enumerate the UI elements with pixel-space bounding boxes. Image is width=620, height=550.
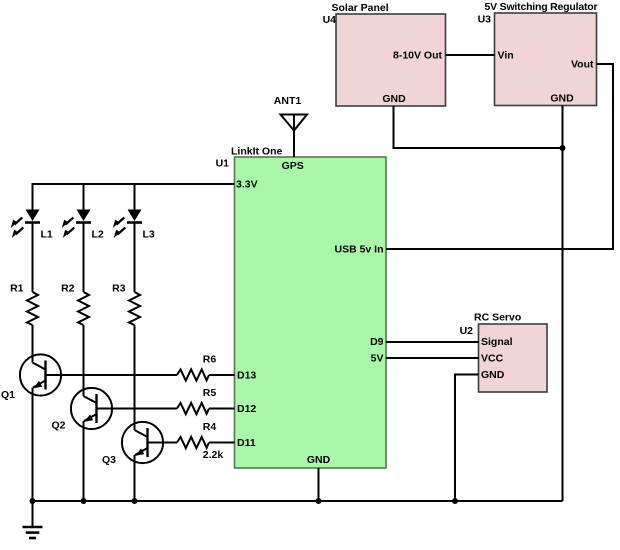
- regulator U3: [478, 1, 598, 106]
- junction L1 chain / rail: [30, 498, 36, 504]
- svg-text:5V: 5V: [371, 353, 384, 365]
- ground: [23, 501, 43, 538]
- svg-text:RC Servo: RC Servo: [474, 312, 521, 324]
- svg-text:Q1: Q1: [1, 389, 15, 401]
- wire Q3 base to R4: [148, 442, 178, 444]
- junction L3 chain / rail: [132, 498, 138, 504]
- wire Q2 emitter down: [83, 421, 85, 501]
- resistor R2: [61, 283, 89, 326]
- wire R3 to Q3 collector: [134, 325, 136, 430]
- svg-text:L3: L3: [143, 229, 155, 241]
- svg-text:R2: R2: [61, 283, 75, 295]
- ground rail: [32, 500, 563, 502]
- svg-text:GPS: GPS: [282, 160, 304, 172]
- svg-text:D13: D13: [237, 370, 256, 382]
- svg-text:U4: U4: [323, 14, 337, 26]
- svg-text:L1: L1: [41, 229, 53, 241]
- transistor Q2: [51, 388, 112, 432]
- junction L2 chain / rail: [81, 498, 87, 504]
- resistor R1: [10, 283, 38, 326]
- wire U2 GND down: [455, 375, 479, 502]
- solar panel U4: [323, 2, 446, 106]
- svg-text:R5: R5: [203, 387, 217, 399]
- LinkIt One U1: [216, 146, 386, 469]
- svg-text:Solar Panel: Solar Panel: [332, 2, 389, 14]
- svg-text:U2: U2: [460, 325, 474, 337]
- svg-text:VCC: VCC: [481, 353, 504, 365]
- wire Q1 base to R6: [46, 374, 178, 376]
- svg-text:GND: GND: [382, 93, 406, 105]
- svg-text:D12: D12: [237, 403, 256, 415]
- svg-text:GND: GND: [550, 93, 574, 105]
- resistor R5: [177, 387, 216, 414]
- svg-text:R3: R3: [112, 283, 126, 295]
- wire U3 Vout to USB 5v In: [386, 64, 613, 249]
- svg-text:Signal: Signal: [481, 336, 513, 348]
- svg-text:R4: R4: [203, 421, 217, 433]
- LED L3: [113, 210, 155, 241]
- junction U1 GND / rail: [316, 498, 322, 504]
- svg-text:2.2k: 2.2k: [203, 449, 224, 461]
- svg-text:Q2: Q2: [51, 420, 65, 432]
- wire branch to L3: [134, 184, 136, 210]
- wire U3 GND down to ground rail: [562, 106, 564, 502]
- svg-text:8-10V Out: 8-10V Out: [393, 50, 443, 62]
- svg-text:R1: R1: [10, 283, 24, 295]
- resistor R4: [177, 421, 223, 461]
- wire R2 to Q2 collector: [83, 325, 85, 396]
- wire Q2 base to R5: [97, 408, 178, 410]
- svg-text:L2: L2: [92, 229, 104, 241]
- wire R6 to D13: [209, 374, 235, 376]
- svg-text:Q3: Q3: [102, 454, 116, 466]
- wire U4 out to U3 Vin: [446, 54, 495, 56]
- wire U4 GND down and right: [394, 106, 563, 148]
- wire D9 to Signal: [386, 341, 479, 343]
- svg-text:D9: D9: [370, 336, 384, 348]
- svg-text:GND: GND: [307, 454, 331, 466]
- transistor Q1: [1, 354, 61, 401]
- svg-text:GND: GND: [481, 369, 505, 381]
- wire branch to L2: [83, 184, 85, 210]
- svg-text:D11: D11: [237, 437, 256, 449]
- svg-text:3.3V: 3.3V: [236, 179, 258, 191]
- svg-text:ANT1: ANT1: [274, 95, 302, 107]
- junction solar GND / regulator GND: [560, 145, 566, 151]
- wire R5 to D12: [209, 408, 235, 410]
- wire 5V to VCC: [386, 357, 479, 359]
- LED L1: [11, 210, 53, 241]
- antenna ANT1: [274, 95, 307, 157]
- RC servo U2: [460, 312, 547, 393]
- svg-text:R6: R6: [203, 354, 217, 366]
- wire R4 to D11: [209, 442, 235, 444]
- svg-text:Vout: Vout: [571, 59, 594, 71]
- svg-text:U1: U1: [216, 158, 230, 170]
- wire L3 to R3: [134, 223, 136, 293]
- LED L2: [62, 210, 104, 241]
- transistor Q3: [102, 422, 163, 466]
- svg-text:5V Switching Regulator: 5V Switching Regulator: [485, 1, 598, 13]
- wire U1 GND down: [318, 468, 320, 501]
- svg-text:U3: U3: [478, 14, 492, 26]
- wire 3.3V rail: [33, 184, 235, 210]
- resistor R6: [177, 354, 216, 381]
- wire L2 to R2: [83, 223, 85, 293]
- junction U2 GND / rail: [452, 498, 458, 504]
- resistor R3: [112, 283, 140, 326]
- svg-text:USB 5v In: USB 5v In: [334, 244, 383, 256]
- wire L1 to R1: [32, 223, 34, 293]
- wire R1 to Q1 collector: [32, 325, 34, 363]
- wire Q1 emitter down: [32, 388, 34, 502]
- svg-text:LinkIt One: LinkIt One: [231, 146, 282, 158]
- wire Q3 emitter down: [134, 455, 136, 501]
- svg-text:Vin: Vin: [498, 50, 514, 62]
